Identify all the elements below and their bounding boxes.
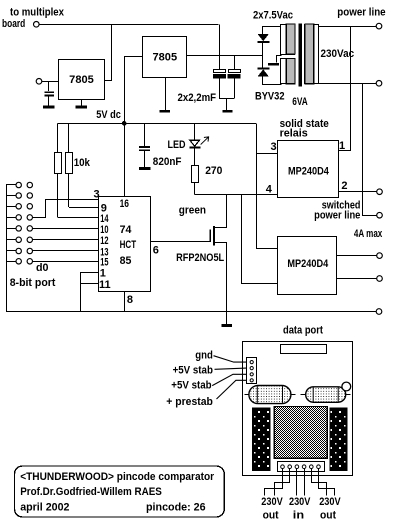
wire: rectifier cathode junction to caps: [262, 26, 264, 34]
svg-text:8-bit port: 8-bit port: [10, 277, 56, 289]
svg-text:out: out: [320, 510, 336, 522]
svg-text:in: in: [293, 510, 305, 522]
svg-text:HCT: HCT: [120, 239, 137, 251]
wire: J2 pin 6 to 230V out: [319, 468, 335, 495]
svg-text:out: out: [263, 510, 279, 522]
wire: unregulated DC to U3 input: [187, 55, 263, 57]
wire: port ground bus: [6, 185, 8, 312]
svg-text:LED: LED: [168, 139, 186, 151]
svg-text:1: 1: [339, 140, 345, 152]
capacitor C1: [48, 81, 50, 91]
capacitor C2 2,2mF: [214, 70, 226, 73]
junction at pin16 riser: [122, 121, 127, 126]
wire: center tap: [277, 56, 282, 63]
resistor R2 10k: [68, 123, 70, 152]
LED arrow: [201, 137, 209, 144]
transformer T1 secondary winding top half: [281, 25, 295, 55]
terminal: switched outlet L: [377, 189, 383, 195]
wire: relay K1 pin 1: [339, 150, 350, 152]
svg-text:12: 12: [100, 235, 108, 247]
ground for C1: [43, 106, 55, 109]
terminal: ground: [376, 309, 382, 315]
pin 8 wire: [124, 291, 126, 311]
resistor R3 270: [192, 166, 199, 183]
relay K2 MP240D4: [278, 237, 337, 295]
wire: prestab to multiplex board: [39, 24, 219, 26]
port row 0 contacts d0: [6, 184, 16, 186]
pin 1 wire: [80, 272, 99, 274]
wire: capacitor common bottom: [219, 98, 234, 100]
svg-text:+ prestab: + prestab: [166, 396, 213, 408]
wire: terminal to U2: [42, 81, 59, 83]
wire: power hot down to relay K1 pin 1: [350, 26, 352, 151]
pin 6 wire: [150, 241, 210, 243]
terminal: 5V stab output: [36, 79, 42, 85]
J2 pin 5: [310, 465, 314, 469]
svg-text:230V: 230V: [319, 496, 341, 508]
svg-text:MP240D4: MP240D4: [287, 258, 329, 270]
pin 15 wire: [33, 261, 99, 263]
wire: primary bottom to power terminal: [318, 83, 376, 85]
ground symbol on rail: [226, 312, 228, 325]
wire: K2 pin 1 to outlet: [337, 255, 377, 257]
svg-text:3: 3: [94, 189, 100, 201]
regulator U2 7805: [59, 60, 105, 100]
heatsink right: [330, 408, 347, 471]
diode D1 BYV32: [258, 34, 269, 41]
mounting pad hole: [342, 382, 351, 391]
transformer T1 secondary winding bottom half: [281, 59, 295, 84]
wire: relay drive node: [195, 194, 278, 196]
relay K1 on board layout: [245, 394, 251, 396]
svg-text:MP240D4: MP240D4: [288, 166, 330, 178]
svg-text:+5V stab: +5V stab: [171, 379, 212, 391]
op-amp U1 74HCT85: [99, 197, 151, 292]
svg-text:74: 74: [120, 224, 133, 236]
diode D2 BYV32: [258, 67, 270, 69]
wire: + prestab to J1 pin 4: [217, 380, 247, 399]
wire: top feed down to 7805 U2: [104, 24, 112, 80]
svg-text:1: 1: [100, 268, 106, 280]
svg-text:85: 85: [120, 255, 132, 267]
wire: J2 pin 5 to 230V out: [312, 468, 327, 495]
pin 14 wire: [58, 217, 99, 219]
transformer T1 core: [299, 23, 302, 86]
svg-text:power line: power line: [314, 209, 360, 221]
terminal: power line L: [376, 23, 382, 29]
svg-text:270: 270: [205, 165, 222, 177]
data port supply connector J1: [247, 358, 257, 384]
wire: J2 pin 2 to 230V out: [275, 468, 290, 495]
J2 pin 1: [281, 465, 285, 469]
wire: gnd to J1 pin 1: [214, 356, 247, 362]
wire: +5V stab to J1 pin 3: [212, 374, 246, 385]
svg-text:+5V stab: +5V stab: [173, 364, 214, 376]
regulator U3 7805: [143, 37, 187, 78]
title box: [15, 466, 225, 517]
svg-text:7805: 7805: [153, 52, 178, 64]
svg-text:pincode: 26: pincode: 26: [146, 502, 206, 514]
pin 11 wire: [80, 283, 99, 285]
svg-text:7805: 7805: [69, 74, 94, 86]
wire: U3 output to 5V rail: [125, 57, 143, 123]
wire: prestab riser to top wire: [219, 24, 221, 69]
J1 pin 2: [250, 367, 253, 370]
J1 pin 1: [250, 361, 253, 364]
svg-text:11: 11: [99, 279, 111, 291]
capacitor C3 2,2mF: [234, 56, 236, 70]
ground for U2: [81, 99, 83, 106]
J2 pin 2: [288, 465, 292, 469]
relay K2 on board layout: [301, 394, 307, 396]
svg-text:8: 8: [127, 294, 133, 306]
svg-text:<THUNDERWOOD> pincode comparat: <THUNDERWOOD> pincode comparator: [20, 471, 215, 483]
wire: J2 pin 3 to 230V in: [296, 468, 298, 495]
port row 1 contacts d1: [6, 195, 16, 197]
svg-text:board: board: [2, 18, 25, 30]
data port board outline: [243, 342, 353, 476]
ground for U3: [165, 77, 167, 110]
J2 pin 4: [302, 465, 306, 469]
wire: Q1 source to ground: [215, 243, 227, 312]
transformer T1 primary winding: [305, 25, 319, 84]
pin 12 wire: [33, 239, 99, 241]
pin 10 wire: [33, 228, 99, 230]
svg-text:10k: 10k: [74, 157, 91, 169]
LED D3: [190, 140, 200, 146]
svg-text:3: 3: [271, 141, 277, 153]
svg-text:data port: data port: [283, 325, 323, 337]
svg-text:d0: d0: [36, 262, 49, 274]
svg-text:6: 6: [153, 245, 159, 257]
svg-text:230V: 230V: [289, 496, 311, 508]
svg-text:2x7.5Vac: 2x7.5Vac: [253, 10, 293, 22]
wire: primary top to power terminal: [318, 26, 376, 28]
pin 9 wire: [69, 207, 99, 209]
pin 3 wire: [33, 200, 99, 218]
capacitor C4 820nF: [144, 123, 146, 146]
relay K1 MP240D4: [278, 141, 339, 198]
svg-text:230V: 230V: [261, 496, 283, 508]
ground for C2 C3: [226, 99, 228, 110]
J1 pin 3: [250, 373, 253, 376]
svg-text:RFP2NO5L: RFP2NO5L: [176, 252, 224, 264]
ground for C4: [139, 167, 151, 170]
port row 2 contacts d2: [6, 206, 16, 208]
svg-text:green: green: [179, 204, 206, 216]
J2 pin 3: [295, 465, 299, 469]
svg-text:power line: power line: [337, 7, 385, 19]
svg-text:april 2002: april 2002: [20, 502, 69, 514]
wire: J2 pin 1 to 230V out: [265, 468, 283, 495]
resistor R1 10k: [57, 123, 59, 152]
terminal: outlet 2 L: [377, 253, 383, 259]
svg-text:10: 10: [100, 224, 108, 236]
svg-text:Prof.Dr.Godfried-Willem RAES: Prof.Dr.Godfried-Willem RAES: [20, 486, 162, 498]
port row 4 contacts d4: [6, 228, 16, 230]
svg-text:5V dc: 5V dc: [96, 109, 121, 121]
svg-text:BYV32: BYV32: [255, 91, 285, 103]
wire: drive node to K2 pin 4: [242, 194, 278, 283]
wire: ground rail: [6, 311, 376, 313]
wire: 5V dc rail: [57, 123, 256, 125]
wire: pins 1 and 11 to ground rail: [80, 272, 82, 311]
wire: secondary top to D1 anode: [263, 26, 282, 28]
svg-text:2: 2: [341, 180, 347, 192]
port row 5 contacts d5: [6, 239, 16, 241]
wire: D2 anode to secondary bottom: [263, 77, 282, 85]
svg-text:4: 4: [266, 184, 273, 196]
wire: power neutral down to switched outlet: [363, 83, 378, 215]
wire: LED to R3: [194, 148, 196, 165]
wire: +5V stab to J1 pin 2: [215, 368, 247, 369]
wire: 5V to LED: [194, 123, 196, 140]
data port top slot: [281, 345, 327, 354]
transistor Q1 RFP2N05L: [213, 226, 215, 245]
wire: K1 pin 2 to switched outlet: [339, 191, 377, 193]
svg-text:4A max: 4A max: [354, 228, 383, 240]
port row 7 contacts d7: [6, 261, 16, 263]
wire: diode junction: [262, 42, 264, 68]
wire: K2 pin 2 to outlet: [337, 278, 377, 280]
svg-text:230Vac: 230Vac: [321, 48, 355, 60]
J1 pin 4: [250, 379, 253, 382]
terminal: to multiplex board: [34, 22, 40, 28]
wire: +5V to K1 pin 3 and K2 pin 3: [257, 123, 278, 248]
ground for center tap: [268, 63, 279, 66]
wire: J2 pin 4 to 230V in: [304, 468, 306, 495]
port row 3 contacts d3: [6, 217, 16, 219]
svg-text:16: 16: [120, 198, 129, 210]
terminal: power line N: [376, 81, 382, 87]
terminal: outlet 2 N: [377, 276, 383, 282]
terminal: switched outlet N: [377, 212, 383, 218]
IC area center: [274, 407, 327, 459]
svg-text:2x2,2mF: 2x2,2mF: [178, 92, 217, 104]
pin 16 wire: [124, 123, 126, 196]
port row 6 contacts d6: [6, 250, 16, 252]
svg-text:6VA: 6VA: [292, 96, 308, 108]
wire: node down to Q1 drain: [215, 194, 227, 227]
svg-text:relais: relais: [280, 128, 308, 140]
svg-text:820nF: 820nF: [153, 156, 182, 168]
pin 13 wire: [33, 250, 99, 252]
wire: K1 pin 3: [256, 153, 278, 155]
J2 pin 6: [317, 465, 321, 469]
svg-text:gnd: gnd: [195, 349, 213, 361]
mains connector J2: [278, 462, 325, 472]
svg-text:to multiplex: to multiplex: [10, 7, 65, 19]
heatsink left: [253, 408, 271, 471]
